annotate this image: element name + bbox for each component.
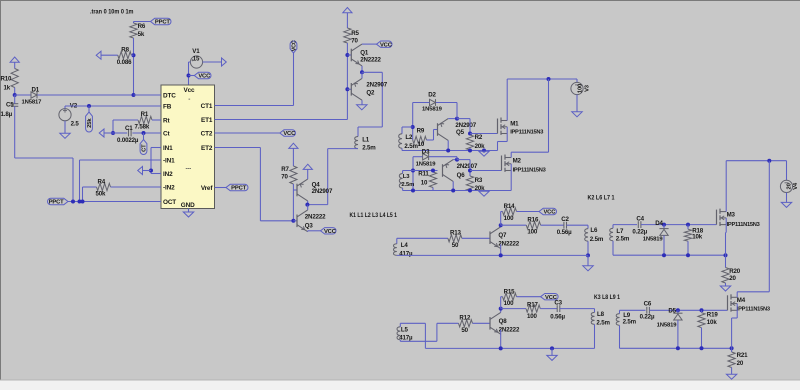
wire DTC pin [134, 94, 162, 96]
wire R15 to VCC [517, 296, 541, 298]
node junction HV [547, 77, 551, 81]
spice directive .tran [90, 9, 134, 15]
resistor R14 [503, 203, 517, 222]
svg-text:20: 20 [737, 360, 744, 367]
svg-text:2.5: 2.5 [71, 121, 80, 128]
wire R20 bottom [725, 283, 727, 286]
svg-text:50: 50 [461, 327, 468, 334]
svg-text:-IN1: -IN1 [163, 157, 175, 164]
svg-text:2.5m: 2.5m [616, 235, 630, 242]
wire top out [726, 160, 786, 162]
svg-text:C5: C5 [6, 101, 14, 108]
power arrow above R5 [343, 8, 352, 13]
transistor Q6 2N2907 [443, 160, 478, 182]
wire R14 to VCC [517, 211, 540, 213]
diode D1 [22, 86, 43, 105]
resistor R11 [418, 171, 436, 188]
wire Q1 emitter down [361, 66, 363, 72]
svg-text:C3: C3 [554, 299, 562, 306]
svg-text:V4: V4 [793, 182, 799, 190]
node junction rail M3 [724, 253, 728, 257]
wire M1 drain [506, 79, 508, 121]
resistor R5 [344, 28, 360, 44]
ground at U1 [183, 212, 193, 217]
resistor R17 [526, 302, 540, 321]
svg-text:K1 L1 L2 L3 L4 L5 1: K1 L1 L2 L3 L4 L5 1 [350, 213, 398, 219]
wire R11 bottom [432, 188, 434, 191]
node junction R19 top [700, 308, 704, 312]
capacitor C3 [550, 299, 565, 320]
svg-text:D2: D2 [428, 92, 436, 99]
wire R17 line [501, 308, 526, 310]
ground at block2 rail [479, 191, 489, 196]
net flag PPCT (Vref) [226, 184, 248, 191]
wire Q2 collector down [361, 100, 363, 105]
capacitor C2 [557, 216, 572, 236]
ground at V3 [572, 112, 582, 117]
svg-text:100: 100 [527, 229, 538, 236]
svg-text:Q8: Q8 [499, 318, 508, 325]
wire out bus down [768, 161, 770, 292]
node junction L3 line [411, 169, 415, 173]
wire Q1 base stub [347, 54, 351, 56]
node junction M1 gate [468, 132, 472, 136]
svg-text:CT2: CT2 [201, 130, 213, 137]
svg-text:2N2907: 2N2907 [312, 188, 333, 195]
svg-text:1N5817: 1N5817 [22, 100, 43, 106]
wire arrow to R10 [14, 62, 16, 68]
wire M4 source [732, 304, 738, 349]
wire node to D1 [15, 94, 31, 96]
wire R12 to Q8 base [473, 322, 491, 324]
inductor L2 [399, 134, 419, 150]
svg-text:0.56µ: 0.56µ [557, 229, 572, 236]
node junction rail R2 [468, 149, 472, 153]
wire R3 bottom [469, 190, 471, 193]
ground at Q2 [357, 105, 367, 110]
svg-text:10: 10 [418, 141, 425, 148]
wire Q8 gnd stub [551, 348, 553, 355]
diode D5 [657, 310, 683, 328]
svg-text:---: --- [186, 167, 192, 173]
svg-text:R16: R16 [527, 217, 539, 224]
svg-text:L4: L4 [401, 242, 409, 249]
svg-text:R17: R17 [527, 302, 539, 309]
wire R4 left drop [83, 187, 97, 202]
ground at R20 [720, 286, 730, 291]
node junction Vcc [187, 74, 191, 78]
voltage source V3 [571, 79, 591, 95]
node junction rail Q7 [499, 253, 503, 257]
svg-text:R9: R9 [417, 128, 425, 135]
wire V1 minus to ground [203, 61, 222, 63]
svg-text:2.5m: 2.5m [404, 143, 418, 150]
wire D2 right vertical [456, 103, 458, 119]
resistor R12 [459, 314, 473, 334]
op-amp/PWM controller U1 (TL494 block) [161, 85, 215, 209]
node junction R6/R8 [132, 53, 136, 57]
resistor R2 [466, 134, 485, 150]
wire CT2 [215, 132, 280, 134]
svg-text:VCC: VCC [380, 42, 393, 48]
svg-text:417µ: 417µ [399, 250, 413, 257]
node junction D5 [676, 308, 680, 312]
svg-text:100: 100 [578, 84, 584, 93]
wire D3 right vertical [456, 157, 458, 160]
ground at L6 [583, 266, 593, 271]
inductor L8 [591, 311, 610, 326]
wire Q6 collector [452, 181, 454, 190]
wire L1 bottom [307, 149, 358, 205]
svg-text:VCC: VCC [292, 40, 298, 51]
svg-text:K3 L8 L9 1: K3 L8 L9 1 [594, 295, 621, 301]
node junction L6 gnd [586, 253, 590, 257]
node junction rail D5 [676, 346, 680, 350]
node junction rail Q8 [499, 346, 503, 350]
wire Vref pin [215, 187, 227, 189]
svg-text:20: 20 [729, 275, 736, 282]
net flag VCC (R15) [541, 294, 559, 301]
svg-text:.tran 0 10m 0 1m: .tran 0 10m 0 1m [90, 9, 134, 15]
svg-text:Q3: Q3 [305, 222, 314, 229]
mosfet M2 IPP111N15N3 [502, 155, 546, 174]
svg-text:V1: V1 [192, 48, 200, 55]
svg-text:Q6: Q6 [457, 172, 466, 179]
resistor R1 [135, 111, 153, 130]
wire Q7 emitter [500, 244, 502, 255]
node junction CT flag [142, 131, 146, 135]
inductor L4 [394, 238, 413, 257]
svg-text:D1: D1 [32, 86, 40, 93]
node junction R10/D1/C5 [13, 93, 17, 97]
wire M4 drain [737, 292, 769, 298]
wire to M1 gate [470, 133, 498, 135]
svg-text:OCT: OCT [163, 199, 176, 206]
wire Q1 collector to VCC [362, 43, 377, 45]
wire C3 to L8 [560, 309, 595, 313]
node junction OCT b [78, 200, 82, 204]
node junction Q3/Q4 base [291, 219, 295, 223]
wire M3 drain [725, 161, 727, 212]
transistor Q3 2N2222 [297, 210, 326, 232]
svg-text:M2: M2 [513, 158, 522, 165]
wire base rail [346, 43, 348, 120]
ground at block1 rail [479, 151, 489, 156]
svg-text:1N5819: 1N5819 [643, 237, 664, 243]
wire HV top [507, 78, 575, 80]
transistor Q7 2N2222 [490, 227, 520, 249]
wire L3 bottom to rail [402, 188, 404, 191]
node junction rail D4 [662, 253, 666, 257]
svg-text:PPCT: PPCT [231, 186, 246, 192]
resistor R10 [1, 69, 19, 92]
wire OCT line [68, 201, 161, 203]
svg-text:L6: L6 [590, 227, 598, 234]
wire R19 bottom [701, 328, 703, 349]
svg-text:5k: 5k [138, 31, 145, 38]
wire L8 bottom [594, 324, 596, 348]
wire Q2 base stub [347, 88, 351, 90]
wire Q3 collector [307, 205, 309, 210]
wire M4 rail [620, 325, 732, 348]
net flag VCC (Q3) [321, 228, 337, 235]
wire C6 to gate [650, 309, 728, 311]
svg-text:2N2222: 2N2222 [499, 327, 520, 334]
node junction out bus [767, 159, 771, 163]
wire ET2 [215, 148, 294, 221]
wire R10 to node [14, 88, 16, 96]
node junction OCT c [81, 200, 85, 204]
capacitor C6 [640, 301, 655, 321]
wire R2 bottom [469, 149, 471, 152]
node junction Q8 coll [499, 307, 503, 311]
svg-text:Q5: Q5 [456, 129, 465, 136]
node junction rail Q5 [446, 149, 450, 153]
wire V3 bottom [576, 95, 578, 112]
svg-text:2.5m: 2.5m [401, 182, 414, 188]
wire Q8 stage rail [425, 347, 594, 349]
wire Q7 stage rail [397, 254, 588, 256]
svg-text:R2: R2 [475, 134, 483, 141]
wire R1 left jog [113, 120, 138, 133]
svg-text:ET2: ET2 [201, 145, 213, 152]
wire L7 top line [613, 224, 637, 226]
svg-text:1N5819: 1N5819 [657, 322, 678, 328]
diode D2 [422, 92, 443, 113]
node junction OCT a [71, 200, 75, 204]
mutual inductance K2 [588, 196, 616, 202]
wire L5 top jog [400, 323, 425, 348]
wire C4 to gate [641, 224, 717, 226]
wire D2 left vertical [412, 103, 414, 141]
wire arrow to R7 [292, 148, 294, 166]
svg-text:DTC: DTC [163, 92, 176, 99]
svg-text:0.086: 0.086 [117, 59, 132, 66]
svg-text:-: - [188, 96, 190, 103]
inductor L3 [399, 171, 414, 188]
diode D3 [416, 148, 437, 167]
power arrow above R7 [289, 143, 298, 148]
svg-text:R12: R12 [459, 314, 471, 321]
svg-text:ET1: ET1 [201, 117, 213, 124]
wire D4 bottom [663, 235, 665, 255]
wire Q6 emitter [453, 159, 457, 161]
wire V3 to top [575, 78, 577, 80]
resistor R6 [130, 23, 146, 38]
net flag PPCT (top) [151, 18, 172, 25]
svg-text:15: 15 [193, 56, 200, 63]
wire D3 line [413, 156, 457, 158]
svg-text:100: 100 [504, 300, 515, 307]
wire Q4 emitter up [307, 169, 309, 179]
wire Q8 emitter [500, 330, 502, 349]
svg-text:L1: L1 [362, 136, 370, 143]
wire gnd to IN node [143, 170, 152, 172]
svg-text:R7: R7 [281, 166, 289, 173]
wire IN1 pin [151, 147, 161, 149]
wire R9 to Q5 base [427, 130, 438, 141]
svg-text:R13: R13 [450, 229, 462, 236]
inductor L9 [616, 310, 636, 325]
svg-text:D3: D3 [422, 148, 430, 155]
power arrow above R10 [10, 57, 19, 62]
voltage source V4 [780, 161, 799, 193]
wire Q5 collector [447, 140, 449, 150]
svg-text:R14: R14 [504, 203, 516, 210]
wire block2 rail [403, 190, 512, 192]
inductor L6 [585, 227, 604, 243]
wire Q5 emitter [448, 118, 457, 120]
node junction FB flag [87, 104, 91, 108]
inductor L7 [610, 225, 630, 243]
label D4 [655, 220, 663, 227]
svg-text:Q7: Q7 [498, 232, 507, 239]
wire R8 to node [131, 54, 133, 56]
svg-text:Rt: Rt [163, 117, 170, 124]
wire R13 to Q7 base [462, 237, 490, 239]
wire Ct node to C1 [113, 132, 127, 134]
node junction rail R19 [700, 346, 704, 350]
wire Q8 collector [500, 309, 502, 313]
node junction IN gnd [149, 169, 153, 173]
svg-text:D4: D4 [655, 220, 663, 227]
resistor R3 [466, 176, 485, 192]
svg-text:GND: GND [181, 202, 195, 209]
node junction Q2 base [345, 87, 349, 91]
node junction Q1 base [345, 53, 349, 57]
transistor Q2 2N2907 [351, 78, 387, 100]
net flag VCC (R14) [539, 208, 557, 215]
net flag CT (rotated) [140, 133, 148, 154]
wire M2 source [510, 164, 512, 191]
node junction rail M4 [730, 346, 734, 350]
svg-text:70: 70 [351, 37, 358, 44]
wire V4 bottom [786, 193, 788, 203]
svg-text:0.0022µ: 0.0022µ [117, 137, 139, 144]
wire down to OCT line [72, 158, 74, 202]
wire V2 bottom [64, 121, 66, 134]
wire emitters jog [358, 72, 382, 127]
svg-text:2.5m: 2.5m [623, 318, 637, 325]
wire Rt pin [152, 119, 161, 121]
mosfet M1 IPP111N15N3 [498, 118, 544, 136]
wire -IN2 pin [111, 186, 162, 188]
node junction collectors [305, 203, 309, 207]
wire Q7 collector [500, 225, 502, 227]
diode D4 [643, 225, 669, 243]
ground at V2 [60, 133, 70, 138]
svg-text:2N2222: 2N2222 [498, 241, 519, 248]
svg-text:1N5819: 1N5819 [422, 107, 443, 113]
resistor R8 [117, 47, 132, 66]
wire R14 drop [501, 212, 503, 226]
node junction DTC [132, 93, 136, 97]
node junction Ct left [111, 131, 115, 135]
svg-text:R10: R10 [1, 76, 13, 83]
svg-text:R5: R5 [351, 30, 359, 37]
wire R15 drop [501, 297, 503, 309]
svg-text:2N2222: 2N2222 [360, 56, 381, 63]
capacitor C5 [1, 101, 19, 118]
wire Q2 emitter up [361, 72, 363, 78]
wire M3 rail [613, 241, 726, 255]
svg-text:50: 50 [452, 242, 459, 249]
svg-text:1.8µ: 1.8µ [1, 111, 13, 118]
svg-text:1N5819: 1N5819 [416, 161, 437, 167]
svg-text:0.22µ: 0.22µ [640, 313, 655, 320]
ground (rotated left) at R8 [96, 51, 101, 59]
svg-text:Q1: Q1 [360, 49, 369, 56]
label D5 [668, 307, 676, 314]
svg-text:1k: 1k [4, 84, 11, 91]
wire L9 top line [620, 309, 646, 311]
wire Q3 base stub [293, 220, 297, 222]
wire arrow to R5 [346, 13, 348, 28]
wire L6 bottom [587, 241, 589, 255]
resistor R4 [96, 178, 111, 197]
svg-text:M4: M4 [737, 297, 746, 304]
svg-text:IPP111N15N3: IPP111N15N3 [513, 168, 546, 174]
svg-text:417µ: 417µ [399, 335, 413, 342]
wire D5 bottom [677, 320, 679, 348]
svg-text:Vcc: Vcc [184, 87, 196, 94]
svg-text:R15: R15 [504, 288, 516, 295]
wire R16 to C2 [541, 224, 564, 226]
svg-text:L5: L5 [401, 326, 409, 333]
wire D2 line [413, 102, 457, 104]
svg-text:R20: R20 [729, 268, 741, 275]
inductor L1 [355, 127, 377, 152]
node junction M2 gate [468, 169, 472, 173]
mutual inductance K1 [350, 213, 398, 219]
wire HV bus down [548, 79, 550, 152]
wire ET1 [215, 119, 348, 121]
wire C2 to L6 [567, 225, 589, 228]
node junction D4 [662, 223, 666, 227]
net flag VCC (V1) [194, 72, 211, 79]
svg-text:7.58k: 7.58k [135, 124, 150, 131]
ground at R21 [726, 374, 736, 379]
svg-text:10k: 10k [707, 319, 718, 326]
net flag PPCT (OCT) [48, 198, 69, 205]
svg-text:2N2222: 2N2222 [305, 214, 326, 221]
resistor R19 [698, 310, 718, 327]
node junction rail gnd Q8 [550, 346, 554, 350]
wire L4 top to R13 [397, 237, 448, 239]
wire gate node right [457, 119, 470, 135]
svg-text:R6: R6 [138, 23, 146, 30]
svg-text:2N2907: 2N2907 [366, 82, 387, 89]
ground (rotated left) at Ct [99, 129, 104, 137]
wire L5 bottom jog [400, 323, 458, 341]
ground at Q8 rail [547, 355, 557, 360]
svg-text:R1: R1 [141, 111, 149, 118]
wire M2 drain [511, 152, 548, 157]
svg-text:100: 100 [504, 215, 515, 222]
resistor R9 [413, 128, 427, 149]
transistor Q4 2N2907 [297, 179, 333, 201]
svg-text:VCC: VCC [543, 210, 556, 216]
resistor R20 [722, 255, 741, 283]
resistor R15 [503, 288, 517, 307]
node junction D2/gate [455, 117, 459, 121]
wire D3 left vertical [412, 157, 414, 191]
wire to M2 gate [470, 170, 502, 172]
wire R6 bottom [133, 38, 135, 95]
svg-text:L7: L7 [616, 228, 624, 235]
svg-text:V3: V3 [585, 84, 591, 92]
capacitor C4 [632, 216, 647, 236]
